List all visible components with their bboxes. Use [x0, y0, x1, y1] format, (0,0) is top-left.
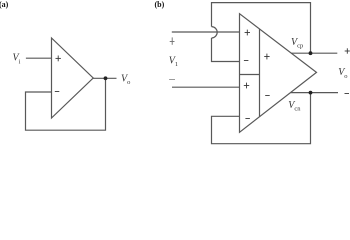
wire hop crossing over input wire: [212, 27, 218, 38]
minus mark input 2 (b): [244, 60, 249, 62]
svg-text:(b): (b): [155, 0, 165, 9]
plus mark inner stage (b): [264, 54, 269, 60]
wire Vi input (a): [26, 57, 52, 59]
junction dot output node (a): [104, 76, 108, 80]
minus mark source polarity (b): [169, 79, 175, 81]
svg-text:(a): (a): [0, 0, 9, 9]
wire feedback loop (a): [26, 78, 106, 130]
plus mark noninverting input (a): [56, 56, 61, 62]
junction dot Vcn node (b): [309, 91, 313, 95]
plus mark output polarity (b): [345, 48, 350, 53]
plus mark source polarity (b): [170, 37, 175, 44]
minus mark inverting input (a): [55, 91, 60, 93]
wire output (a): [93, 77, 117, 79]
minus mark output polarity (b): [345, 93, 350, 95]
minus mark inner stage (b): [265, 95, 270, 97]
wire top feedback lower segment: [212, 38, 240, 62]
wire top feedback Vcp to inverting input (b): [212, 3, 311, 54]
junction dot Vcp node (b): [309, 51, 313, 55]
op-amp A2 DDA triangle (b): [240, 14, 317, 133]
plus mark input 3 (b): [244, 83, 249, 89]
wire input + (b): [172, 31, 240, 33]
minus mark input 4 (b): [245, 118, 250, 120]
plus mark input 1 (b): [245, 30, 250, 36]
wire output Vcp (b): [291, 52, 337, 54]
inner stage connector line (b): [240, 74, 260, 76]
op-amp A1 triangle (a): [52, 38, 94, 118]
inner stage divider line (b): [259, 29, 261, 117]
wire output Vcn (b): [291, 92, 339, 94]
wire bottom feedback Vcn to inverting input (b): [212, 93, 311, 144]
wire input - (b): [172, 86, 240, 88]
